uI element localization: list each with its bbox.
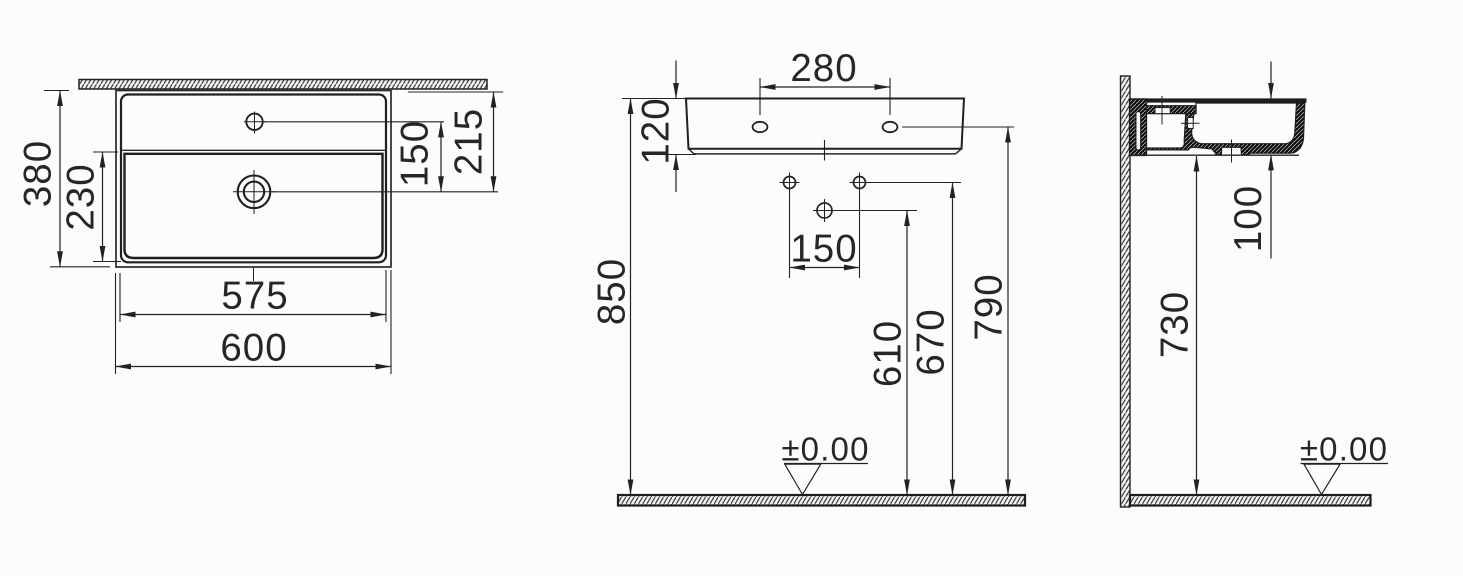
fixing drill hole right — [850, 173, 870, 193]
dim 215 extension top — [408, 91, 503, 93]
svg-text:100: 100 — [1227, 185, 1270, 252]
back wall tap channel slot — [1188, 118, 1194, 129]
svg-text:280: 280 — [790, 47, 857, 90]
top reference arrow (side) — [1270, 62, 1272, 99]
dim 575 extension left — [119, 273, 121, 322]
dim 120 lower segment — [675, 155, 677, 193]
tap deck band (section) — [1147, 106, 1197, 114]
outlet centerline — [1231, 140, 1233, 163]
dim 120 extension bottom — [662, 154, 696, 156]
svg-text:150: 150 — [790, 228, 857, 271]
basin top slab (section) — [1130, 98, 1307, 102]
tap hole (section) — [1155, 108, 1170, 114]
dim 120 extension top — [622, 98, 686, 100]
wall hatched bar (side) — [1121, 76, 1131, 507]
svg-text:±0.00: ±0.00 — [1300, 431, 1388, 468]
center tick (front) — [824, 140, 826, 161]
floor level mark (side) — [1300, 431, 1388, 495]
svg-text:850: 850 — [591, 258, 634, 325]
svg-text:610: 610 — [867, 320, 910, 387]
fixing drill hole left — [780, 173, 800, 193]
dim 150 (front) extension right — [859, 193, 861, 279]
dim 380 extension top — [44, 90, 69, 92]
dim 230 extension top — [93, 151, 118, 153]
dim 120 upper segment — [675, 61, 677, 99]
drain (plan) — [233, 170, 276, 214]
svg-text:575: 575 — [221, 275, 288, 318]
fixing hole right (front) — [883, 122, 898, 132]
leader from right fixing hole to dim 670 — [868, 182, 961, 184]
dim 850 line — [630, 99, 632, 496]
svg-text:215: 215 — [448, 108, 491, 175]
back panel fixing slot — [1136, 112, 1141, 151]
svg-text:±0.00: ±0.00 — [781, 431, 869, 468]
drain leader line — [272, 191, 498, 193]
dim 230 extension bottom — [93, 261, 121, 263]
dim 610 line — [906, 211, 908, 496]
svg-text:150: 150 — [394, 120, 437, 187]
wall hatched bar (plan) — [79, 80, 487, 90]
faucet leader line — [263, 121, 444, 123]
dim 600 line — [116, 366, 392, 368]
washbasin outer rim (plan) — [116, 91, 391, 268]
washbasin inner rim (plan) — [121, 95, 386, 263]
floor hatched bar (front) — [618, 495, 1025, 506]
tap channel centerline tick — [1181, 122, 1200, 124]
floor level mark (front) — [781, 431, 869, 495]
svg-text:120: 120 — [635, 97, 678, 164]
dim 230 line — [102, 152, 104, 262]
leader from right slot to dim 790 — [902, 126, 1014, 128]
svg-text:790: 790 — [968, 273, 1011, 340]
svg-text:380: 380 — [17, 140, 60, 207]
leader from drain hole to dim 610 — [834, 210, 917, 212]
faucet hole — [244, 112, 267, 134]
basin bottom strip — [689, 149, 962, 154]
dim 280 extension right — [889, 78, 891, 115]
bowl rim (plan) — [125, 154, 383, 258]
dim 600 extension right — [390, 270, 392, 374]
basin body section (back wall, floor, right wall) — [1147, 103, 1305, 155]
svg-text:230: 230 — [60, 163, 103, 230]
basin back panel (section) — [1130, 99, 1147, 156]
svg-text:670: 670 — [910, 308, 953, 375]
dim 150 (plan) line — [440, 122, 442, 192]
tap hole centerline — [1161, 96, 1163, 125]
dim 150 (front) extension left — [789, 193, 791, 279]
dim 730 line — [1196, 156, 1198, 495]
floor hatched bar (side) — [1130, 495, 1371, 506]
dim 600 extension left — [115, 273, 117, 374]
basin front outline — [686, 99, 964, 149]
dim 280 extension left — [759, 78, 761, 115]
deck front edge line — [122, 149, 387, 151]
dim 150 (front) line — [790, 267, 860, 269]
center tick bottom (plan) — [253, 268, 255, 281]
basin bottom edge (section) — [1134, 154, 1299, 156]
dim 670 line — [952, 183, 954, 496]
svg-text:600: 600 — [220, 327, 287, 370]
svg-text:730: 730 — [1154, 291, 1197, 358]
fixing hole left (front) — [753, 122, 768, 132]
dim 380 line — [59, 91, 61, 267]
dim 100 line — [1270, 155, 1272, 259]
dim 575 extension right — [385, 270, 387, 322]
drain hole (front) — [813, 199, 836, 222]
dim 790 line — [1007, 127, 1009, 495]
dim 380 extension bottom — [50, 266, 110, 268]
dim 280 line — [760, 86, 890, 88]
dim 575 line — [120, 314, 386, 316]
dim 215 line — [493, 92, 495, 192]
